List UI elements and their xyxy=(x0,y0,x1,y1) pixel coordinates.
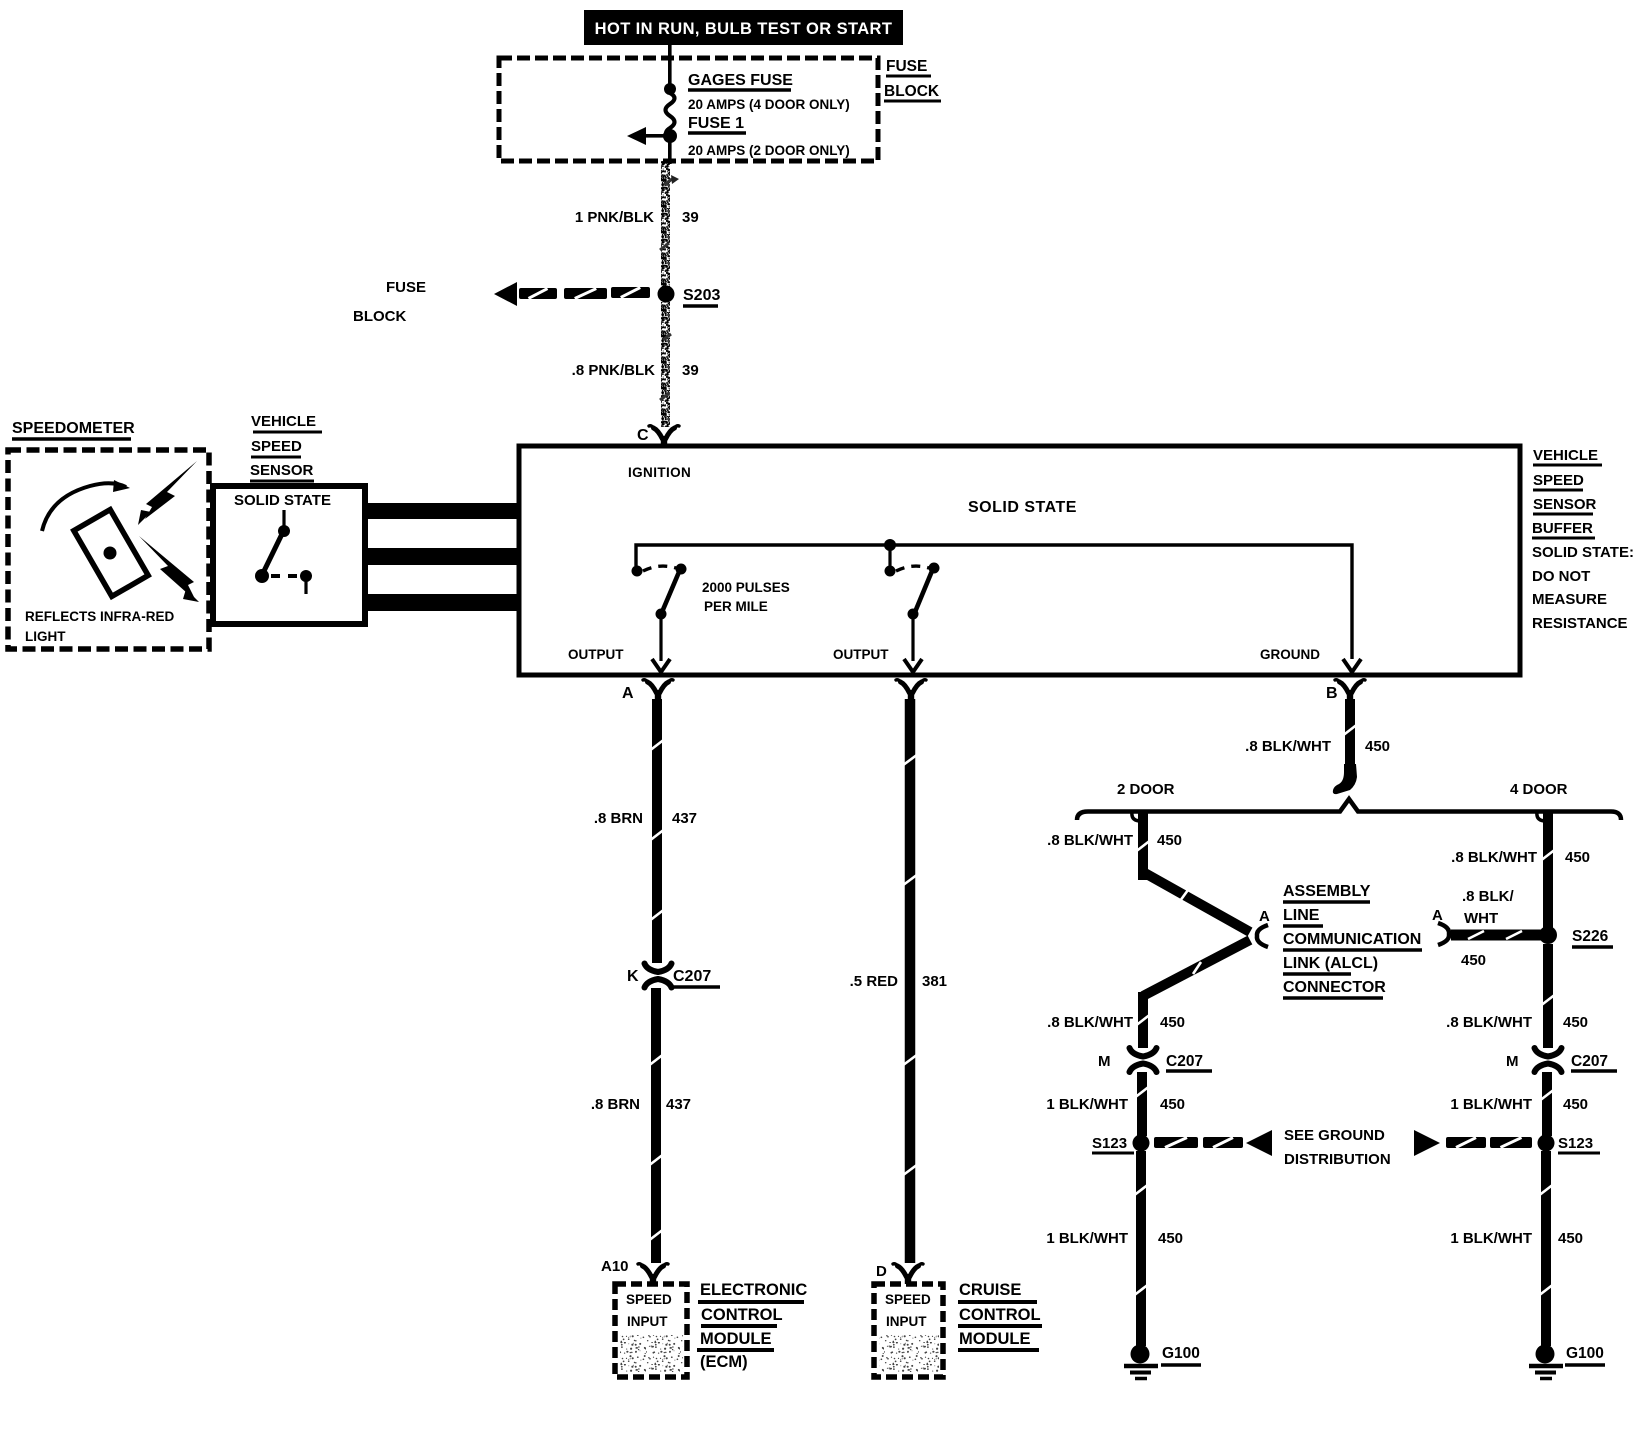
svg-text:M: M xyxy=(1098,1053,1111,1070)
svg-text:DO NOT: DO NOT xyxy=(1532,568,1590,585)
svg-text:MODULE: MODULE xyxy=(959,1330,1031,1348)
svg-text:437: 437 xyxy=(672,810,697,827)
fuse block dashed box xyxy=(499,58,878,161)
connector B (female) below buffer xyxy=(1340,682,1349,693)
svg-text:.8 BLK/WHT: .8 BLK/WHT xyxy=(1047,832,1133,849)
svg-text:OUTPUT: OUTPUT xyxy=(833,647,889,662)
svg-text:MEASURE: MEASURE xyxy=(1532,591,1607,608)
cruise box stipple area xyxy=(879,1335,939,1372)
infra-red light ray arrow (reflected) xyxy=(139,536,196,601)
wire fuse to fuse block bottom edge xyxy=(668,140,672,164)
svg-text:CONTROL: CONTROL xyxy=(959,1306,1041,1324)
svg-text:SPEED: SPEED xyxy=(1533,472,1584,489)
svg-text:SPEED: SPEED xyxy=(885,1292,931,1307)
svg-text:LIGHT: LIGHT xyxy=(25,629,66,644)
hooked arrowhead pointing at 2door/4door split xyxy=(1333,764,1357,794)
svg-text:BUFFER: BUFFER xyxy=(1532,520,1593,537)
svg-text:DISTRIBUTION: DISTRIBUTION xyxy=(1284,1151,1391,1168)
svg-text:C207: C207 xyxy=(673,968,711,985)
svg-text:.8 PNK/BLK: .8 PNK/BLK xyxy=(572,362,656,379)
svg-text:S226: S226 xyxy=(1572,928,1609,945)
svg-text:1 BLK/WHT: 1 BLK/WHT xyxy=(1450,1230,1532,1247)
connector C (female) at buffer ignition input xyxy=(654,428,663,439)
arrowhead ground path to pin B xyxy=(1343,659,1361,672)
svg-text:SENSOR: SENSOR xyxy=(1533,496,1597,513)
svg-text:450: 450 xyxy=(1365,738,1390,755)
svg-text:G100: G100 xyxy=(1566,1345,1604,1362)
svg-text:C207: C207 xyxy=(1571,1053,1608,1070)
svg-text:1 BLK/WHT: 1 BLK/WHT xyxy=(1046,1096,1128,1113)
svg-text:HOT IN RUN, BULB TEST OR START: HOT IN RUN, BULB TEST OR START xyxy=(595,20,893,38)
svg-text:SEE GROUND: SEE GROUND xyxy=(1284,1127,1385,1144)
svg-text:.8 BRN: .8 BRN xyxy=(594,810,643,827)
svg-text:381: 381 xyxy=(922,973,947,990)
svg-text:450: 450 xyxy=(1160,1014,1185,1031)
brace for 2 door / 4 door split xyxy=(1077,799,1621,820)
wire .8 BLK/WHT 450 S226 to C207 (4 door) xyxy=(1543,944,1553,1048)
vehicle speed sensor buffer module box xyxy=(519,446,1520,675)
arrow to other fuse block circuits xyxy=(645,134,670,138)
connector D at cruise control module xyxy=(898,1266,907,1277)
svg-text:B: B xyxy=(1326,685,1338,702)
svg-text:2000 PULSES: 2000 PULSES xyxy=(702,580,790,595)
wire 1 BLK/WHT 450 S123 to G100 (4 door) xyxy=(1541,1151,1551,1346)
ground G100 (4 door) xyxy=(1536,1345,1555,1364)
svg-text:.8 BLK/WHT: .8 BLK/WHT xyxy=(1245,738,1331,755)
svg-text:.8 BLK/WHT: .8 BLK/WHT xyxy=(1446,1014,1532,1031)
svg-text:CONTROL: CONTROL xyxy=(701,1306,783,1324)
svg-text:ELECTRONIC: ELECTRONIC xyxy=(700,1281,807,1299)
svg-text:SPEEDOMETER: SPEEDOMETER xyxy=(12,420,135,437)
svg-text:SOLID STATE:: SOLID STATE: xyxy=(1532,544,1634,561)
svg-text:FUSE: FUSE xyxy=(386,279,426,296)
splice S123 (2 door) xyxy=(1133,1135,1150,1152)
infra-red light ray arrow (incoming) xyxy=(145,461,197,519)
svg-text:A: A xyxy=(622,685,634,702)
wire .8 BLK/WHT 450 from B to body split xyxy=(1345,699,1355,768)
sensor internal switch symbol xyxy=(282,510,285,528)
splice S203 xyxy=(658,286,675,303)
svg-text:REFLECTS INFRA-RED: REFLECTS INFRA-RED xyxy=(25,609,174,624)
svg-text:C207: C207 xyxy=(1166,1053,1203,1070)
svg-text:INPUT: INPUT xyxy=(886,1314,927,1329)
svg-text:VEHICLE: VEHICLE xyxy=(251,413,316,430)
harness bar 1 sensor to buffer xyxy=(365,503,519,519)
wire .8 BLK/WHT 450 down to C207 (2 door) xyxy=(1138,992,1148,1048)
svg-text:D: D xyxy=(876,1263,887,1280)
svg-text:1 BLK/WHT: 1 BLK/WHT xyxy=(1450,1096,1532,1113)
splice S226 xyxy=(1539,926,1557,944)
svg-text:IGNITION: IGNITION xyxy=(628,465,691,480)
svg-text:LINK (ALCL): LINK (ALCL) xyxy=(1283,955,1378,972)
arrowhead output 1 to pin A xyxy=(652,659,670,672)
wire .8 PNK/BLK 39 from S203 to connector C (shaded) xyxy=(661,302,670,427)
dashed arrow to ground distribution (right) xyxy=(1414,1130,1440,1156)
svg-text:.8 BLK/WHT: .8 BLK/WHT xyxy=(1047,1014,1133,1031)
harness bar 2 sensor to buffer xyxy=(365,548,519,565)
svg-text:G100: G100 xyxy=(1162,1345,1200,1362)
vehicle speed sensor box xyxy=(213,486,365,624)
diagonal wire down-right to ALCL connector A xyxy=(1143,872,1250,932)
wire .8 BRN 437 segment C207 to ECM xyxy=(651,988,661,1263)
wire 1 BLK/WHT 450 C207 to S123 (4 door) xyxy=(1542,1072,1552,1136)
svg-text:BLOCK: BLOCK xyxy=(884,83,940,100)
in-line connector C207 (4 door) xyxy=(1540,1057,1556,1063)
svg-text:A: A xyxy=(1432,907,1443,924)
svg-text:450: 450 xyxy=(1565,849,1590,866)
ECM speed input dashed box xyxy=(615,1284,687,1377)
svg-text:450: 450 xyxy=(1563,1014,1588,1031)
output stage 2 switch symbol xyxy=(885,566,896,577)
connector A10 at ECM xyxy=(643,1266,652,1277)
svg-text:FUSE 1: FUSE 1 xyxy=(688,115,744,132)
in-line connector C207 (2 door) xyxy=(1135,1057,1151,1063)
svg-text:S123: S123 xyxy=(1558,1135,1593,1152)
svg-text:1 PNK/BLK: 1 PNK/BLK xyxy=(575,209,654,226)
svg-text:ASSEMBLY: ASSEMBLY xyxy=(1283,883,1371,900)
svg-text:GAGES FUSE: GAGES FUSE xyxy=(688,72,793,89)
wire .8 BLK/WHT 450 from ALCL A to splice S226 xyxy=(1451,930,1542,941)
svg-text:A10: A10 xyxy=(601,1258,629,1275)
svg-text:C: C xyxy=(637,427,649,444)
wire 1 PNK/BLK 39 from fuse block to splice S203 (shaded) xyxy=(661,161,670,289)
wire .8 BLK/WHT 450 2-door from brace (hook top) xyxy=(1132,812,1139,821)
splice S123 (4 door) xyxy=(1538,1135,1555,1152)
svg-text:CONNECTOR: CONNECTOR xyxy=(1283,979,1386,996)
svg-text:FUSE: FUSE xyxy=(886,58,927,75)
svg-text:SOLID STATE: SOLID STATE xyxy=(234,492,331,509)
svg-text:39: 39 xyxy=(682,362,699,379)
svg-text:20 AMPS (2 DOOR ONLY): 20 AMPS (2 DOOR ONLY) xyxy=(688,143,850,158)
speedometer mirror (rotated rectangle with pivot dot) xyxy=(74,510,148,597)
svg-text:.8 BLK/: .8 BLK/ xyxy=(1462,888,1515,905)
svg-text:39: 39 xyxy=(682,209,699,226)
dashed arrow from S203 to fuse block circuits xyxy=(519,288,557,299)
svg-text:S203: S203 xyxy=(683,287,720,304)
svg-text:1 BLK/WHT: 1 BLK/WHT xyxy=(1046,1230,1128,1247)
svg-text:CRUISE: CRUISE xyxy=(959,1281,1021,1299)
svg-text:INPUT: INPUT xyxy=(627,1314,668,1329)
svg-text:SOLID STATE: SOLID STATE xyxy=(968,499,1077,516)
dashed arrow to ground distribution (left) xyxy=(1154,1137,1198,1148)
harness bar 3 sensor to buffer xyxy=(365,594,519,611)
cruise module speed input dashed box xyxy=(874,1284,943,1377)
diagonal wire down-left from ALCL connector xyxy=(1143,940,1250,996)
svg-text:VEHICLE: VEHICLE xyxy=(1533,447,1598,464)
svg-text:RESISTANCE: RESISTANCE xyxy=(1532,615,1628,632)
connector A (female) below buffer xyxy=(648,682,657,693)
svg-text:450: 450 xyxy=(1461,952,1486,969)
svg-text:COMMUNICATION: COMMUNICATION xyxy=(1283,931,1421,948)
svg-text:.8 BLK/WHT: .8 BLK/WHT xyxy=(1451,849,1537,866)
svg-text:WHT: WHT xyxy=(1464,910,1498,927)
svg-text:S123: S123 xyxy=(1092,1135,1127,1152)
internal wire from ignition circuit to output stages xyxy=(636,545,1352,659)
wire .8 BLK/WHT 450 4-door from brace (hook top) xyxy=(1537,812,1544,821)
power feed label HOT IN RUN, BULB TEST OR START xyxy=(584,10,903,45)
fuse GAGES FUSE / FUSE 1 element xyxy=(664,83,676,95)
ground G100 (2 door) xyxy=(1131,1345,1150,1364)
rotation arc arrow on mirror xyxy=(42,483,126,531)
svg-text:.8 BRN: .8 BRN xyxy=(591,1096,640,1113)
svg-text:SENSOR: SENSOR xyxy=(250,462,314,479)
svg-text:.5 RED: .5 RED xyxy=(850,973,899,990)
wire .8 BRN 437 segment A to C207 xyxy=(652,699,662,963)
svg-text:450: 450 xyxy=(1160,1096,1185,1113)
ECM box stipple area xyxy=(620,1335,683,1372)
wire from HOT bus into fuse block xyxy=(668,45,672,87)
in-line connector C207 (left wire) xyxy=(650,973,666,979)
connector below buffer output 2 xyxy=(901,682,910,693)
svg-text:PER MILE: PER MILE xyxy=(704,599,768,614)
svg-text:437: 437 xyxy=(666,1096,691,1113)
svg-text:20 AMPS (4 DOOR ONLY): 20 AMPS (4 DOOR ONLY) xyxy=(688,97,850,112)
svg-text:SPEED: SPEED xyxy=(626,1292,672,1307)
arrowhead output 2 to pin D xyxy=(904,659,922,672)
svg-text:BLOCK: BLOCK xyxy=(353,308,406,325)
wire 1 BLK/WHT 450 S123 to G100 (2 door) xyxy=(1136,1151,1146,1346)
svg-text:M: M xyxy=(1506,1053,1519,1070)
svg-text:LINE: LINE xyxy=(1283,907,1320,924)
svg-text:K: K xyxy=(627,968,639,985)
svg-text:4 DOOR: 4 DOOR xyxy=(1510,781,1568,798)
svg-text:450: 450 xyxy=(1563,1096,1588,1113)
wire 1 BLK/WHT 450 C207 to S123 (2 door) xyxy=(1137,1072,1147,1136)
svg-text:450: 450 xyxy=(1558,1230,1583,1247)
wire .5 RED 381 to cruise control xyxy=(905,699,916,1263)
svg-text:450: 450 xyxy=(1158,1230,1183,1247)
junction dot feeding second output stage xyxy=(884,539,896,551)
svg-text:450: 450 xyxy=(1157,832,1182,849)
svg-text:GROUND: GROUND xyxy=(1260,647,1320,662)
svg-text:2 DOOR: 2 DOOR xyxy=(1117,781,1175,798)
svg-text:(ECM): (ECM) xyxy=(700,1353,748,1371)
svg-text:MODULE: MODULE xyxy=(700,1330,772,1348)
svg-text:OUTPUT: OUTPUT xyxy=(568,647,624,662)
svg-text:SPEED: SPEED xyxy=(251,438,302,455)
speedometer dashed box xyxy=(8,450,209,649)
svg-text:A: A xyxy=(1259,908,1270,925)
output stage 1 switch symbol xyxy=(632,566,643,577)
